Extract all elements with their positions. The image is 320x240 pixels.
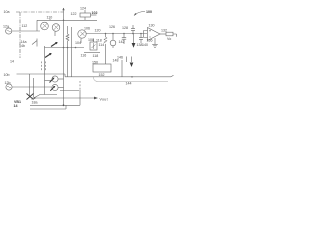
svg-text:114: 114 bbox=[99, 43, 105, 47]
current source I1 bbox=[112, 34, 114, 41]
svg-text:142: 142 bbox=[119, 40, 125, 44]
svg-text:144: 144 bbox=[126, 82, 132, 86]
arrow A1 bbox=[132, 43, 136, 48]
svg-text:106: 106 bbox=[84, 27, 90, 31]
wire main bus mid bbox=[86, 33, 147, 35]
svg-text:102: 102 bbox=[92, 11, 98, 15]
transistor Q1 bbox=[41, 22, 49, 30]
svg-text:104: 104 bbox=[75, 41, 81, 45]
svg-text:Vo: Vo bbox=[167, 37, 171, 41]
wire top boundary horizontal bbox=[16, 11, 64, 13]
capacitor C1 bbox=[122, 34, 126, 45]
wire U1 output bbox=[160, 33, 166, 35]
junction dot J2 bbox=[34, 97, 36, 99]
capacitor C3 bbox=[127, 57, 132, 63]
svg-text:112: 112 bbox=[22, 24, 28, 28]
bias box U2 bbox=[93, 64, 111, 72]
wire top rail bbox=[37, 19, 97, 21]
transistor Q4 bbox=[32, 39, 37, 47]
transistor Ta bbox=[52, 76, 58, 82]
junction dot rail-bus bbox=[63, 20, 65, 22]
svg-text:128: 128 bbox=[122, 26, 128, 30]
junction dots y47.5 bbox=[63, 47, 77, 49]
wire supply drop bbox=[84, 10, 86, 13]
wire x66 riser bbox=[65, 105, 67, 109]
source V2 circle bbox=[6, 84, 12, 90]
wire vertical mid-left bbox=[44, 46, 46, 95]
wire Tb collector bbox=[58, 87, 63, 89]
wire leader arrow 100 bbox=[135, 12, 146, 16]
wire U1 inputs bbox=[144, 31, 148, 38]
wire y105 bbox=[30, 104, 80, 106]
resistor R2 vertical bbox=[105, 34, 107, 48]
arrowhead bus top bbox=[62, 8, 64, 10]
svg-text:132: 132 bbox=[161, 29, 167, 33]
svg-text:12a: 12a bbox=[3, 25, 9, 29]
dashed column x80 bbox=[79, 81, 81, 90]
op-amp U1 bbox=[148, 28, 161, 41]
dashed pair columns bbox=[41, 62, 43, 72]
svg-text:140: 140 bbox=[142, 43, 148, 47]
wire long line right bbox=[65, 75, 174, 77]
svg-text:100: 100 bbox=[146, 10, 152, 14]
wire vertical to bias box bbox=[105, 47, 107, 64]
wire Ta collector bbox=[58, 78, 63, 80]
wire base T_a bbox=[45, 80, 52, 82]
wire Q3 emitter stub bbox=[80, 38, 82, 43]
svg-text:108: 108 bbox=[88, 38, 94, 42]
wire lower boundary left bbox=[17, 74, 66, 77]
wire faint second line bbox=[94, 77, 169, 82]
wire horizontal y47.5 bbox=[45, 47, 85, 49]
wire y52 bbox=[84, 51, 100, 53]
svg-text:118: 118 bbox=[93, 54, 99, 58]
svg-text:12b: 12b bbox=[5, 81, 11, 85]
wire left boundary vertical bbox=[19, 12, 21, 58]
svg-text:120: 120 bbox=[95, 29, 101, 33]
wire y108.8 bbox=[30, 108, 66, 110]
wire left drop bbox=[36, 20, 38, 31]
source V1 input circle bbox=[6, 28, 12, 34]
junction dot J3 bbox=[63, 104, 65, 106]
resistor R3 bbox=[166, 32, 173, 36]
capacitor C2 bbox=[139, 34, 143, 44]
wire vertical x71.5 bbox=[71, 27, 73, 77]
svg-text:116: 116 bbox=[81, 54, 87, 58]
wire vertical x29.5 bbox=[29, 74, 31, 97]
transistor Q5 arrow bbox=[51, 43, 57, 47]
wire x80 riser bbox=[79, 98, 81, 105]
svg-text:Vout: Vout bbox=[100, 98, 108, 102]
svg-text:14b: 14b bbox=[19, 44, 25, 48]
junction dots on bus bbox=[105, 33, 142, 35]
svg-text:10a: 10a bbox=[4, 10, 10, 14]
resistor R4 vertical bbox=[66, 26, 69, 77]
wire after R3 bbox=[173, 34, 177, 37]
svg-text:18a: 18a bbox=[32, 101, 38, 105]
wire vertical x122 bbox=[121, 60, 123, 77]
wire output arrow line bbox=[31, 97, 94, 99]
transistor T1 in box bbox=[90, 42, 97, 50]
wire stub bbox=[93, 39, 95, 43]
transistor Q3 bbox=[78, 30, 86, 38]
svg-text:124: 124 bbox=[80, 7, 86, 11]
svg-text:126: 126 bbox=[109, 25, 115, 29]
transistor Q2 bbox=[52, 24, 60, 32]
arrowhead A3 bbox=[94, 97, 98, 100]
arrow A2 bbox=[130, 63, 134, 68]
svg-text:152: 152 bbox=[99, 73, 105, 77]
resistor R1 bbox=[80, 13, 91, 17]
wire emitter bottom bbox=[32, 95, 58, 100]
wire y90.5 bbox=[60, 90, 79, 92]
wire emitter stub bbox=[54, 31, 56, 36]
capacitor C4 above bus bbox=[131, 25, 135, 34]
svg-text:14: 14 bbox=[10, 60, 14, 64]
wire R1 right lead bbox=[91, 14, 97, 16]
wire input lower bbox=[12, 86, 52, 88]
wire input to amp bbox=[12, 30, 40, 32]
svg-text:14: 14 bbox=[14, 104, 18, 108]
transistor Q6 arrow bbox=[45, 54, 51, 58]
ground G2 bbox=[152, 38, 158, 47]
junction X bbox=[27, 94, 34, 100]
wire R1 bottom bbox=[84, 17, 86, 20]
svg-text:122: 122 bbox=[71, 12, 77, 16]
junction dot bbox=[131, 76, 133, 78]
wire main vertical bus B1 bbox=[63, 8, 65, 105]
svg-text:10b: 10b bbox=[4, 73, 10, 77]
transistor Tb bbox=[52, 84, 58, 90]
svg-text:130: 130 bbox=[149, 24, 155, 28]
wire branch with arrow bbox=[133, 34, 135, 44]
wire vertical x33.5 bbox=[33, 78, 35, 97]
svg-text:146: 146 bbox=[117, 56, 123, 60]
svg-text:110: 110 bbox=[47, 15, 53, 19]
